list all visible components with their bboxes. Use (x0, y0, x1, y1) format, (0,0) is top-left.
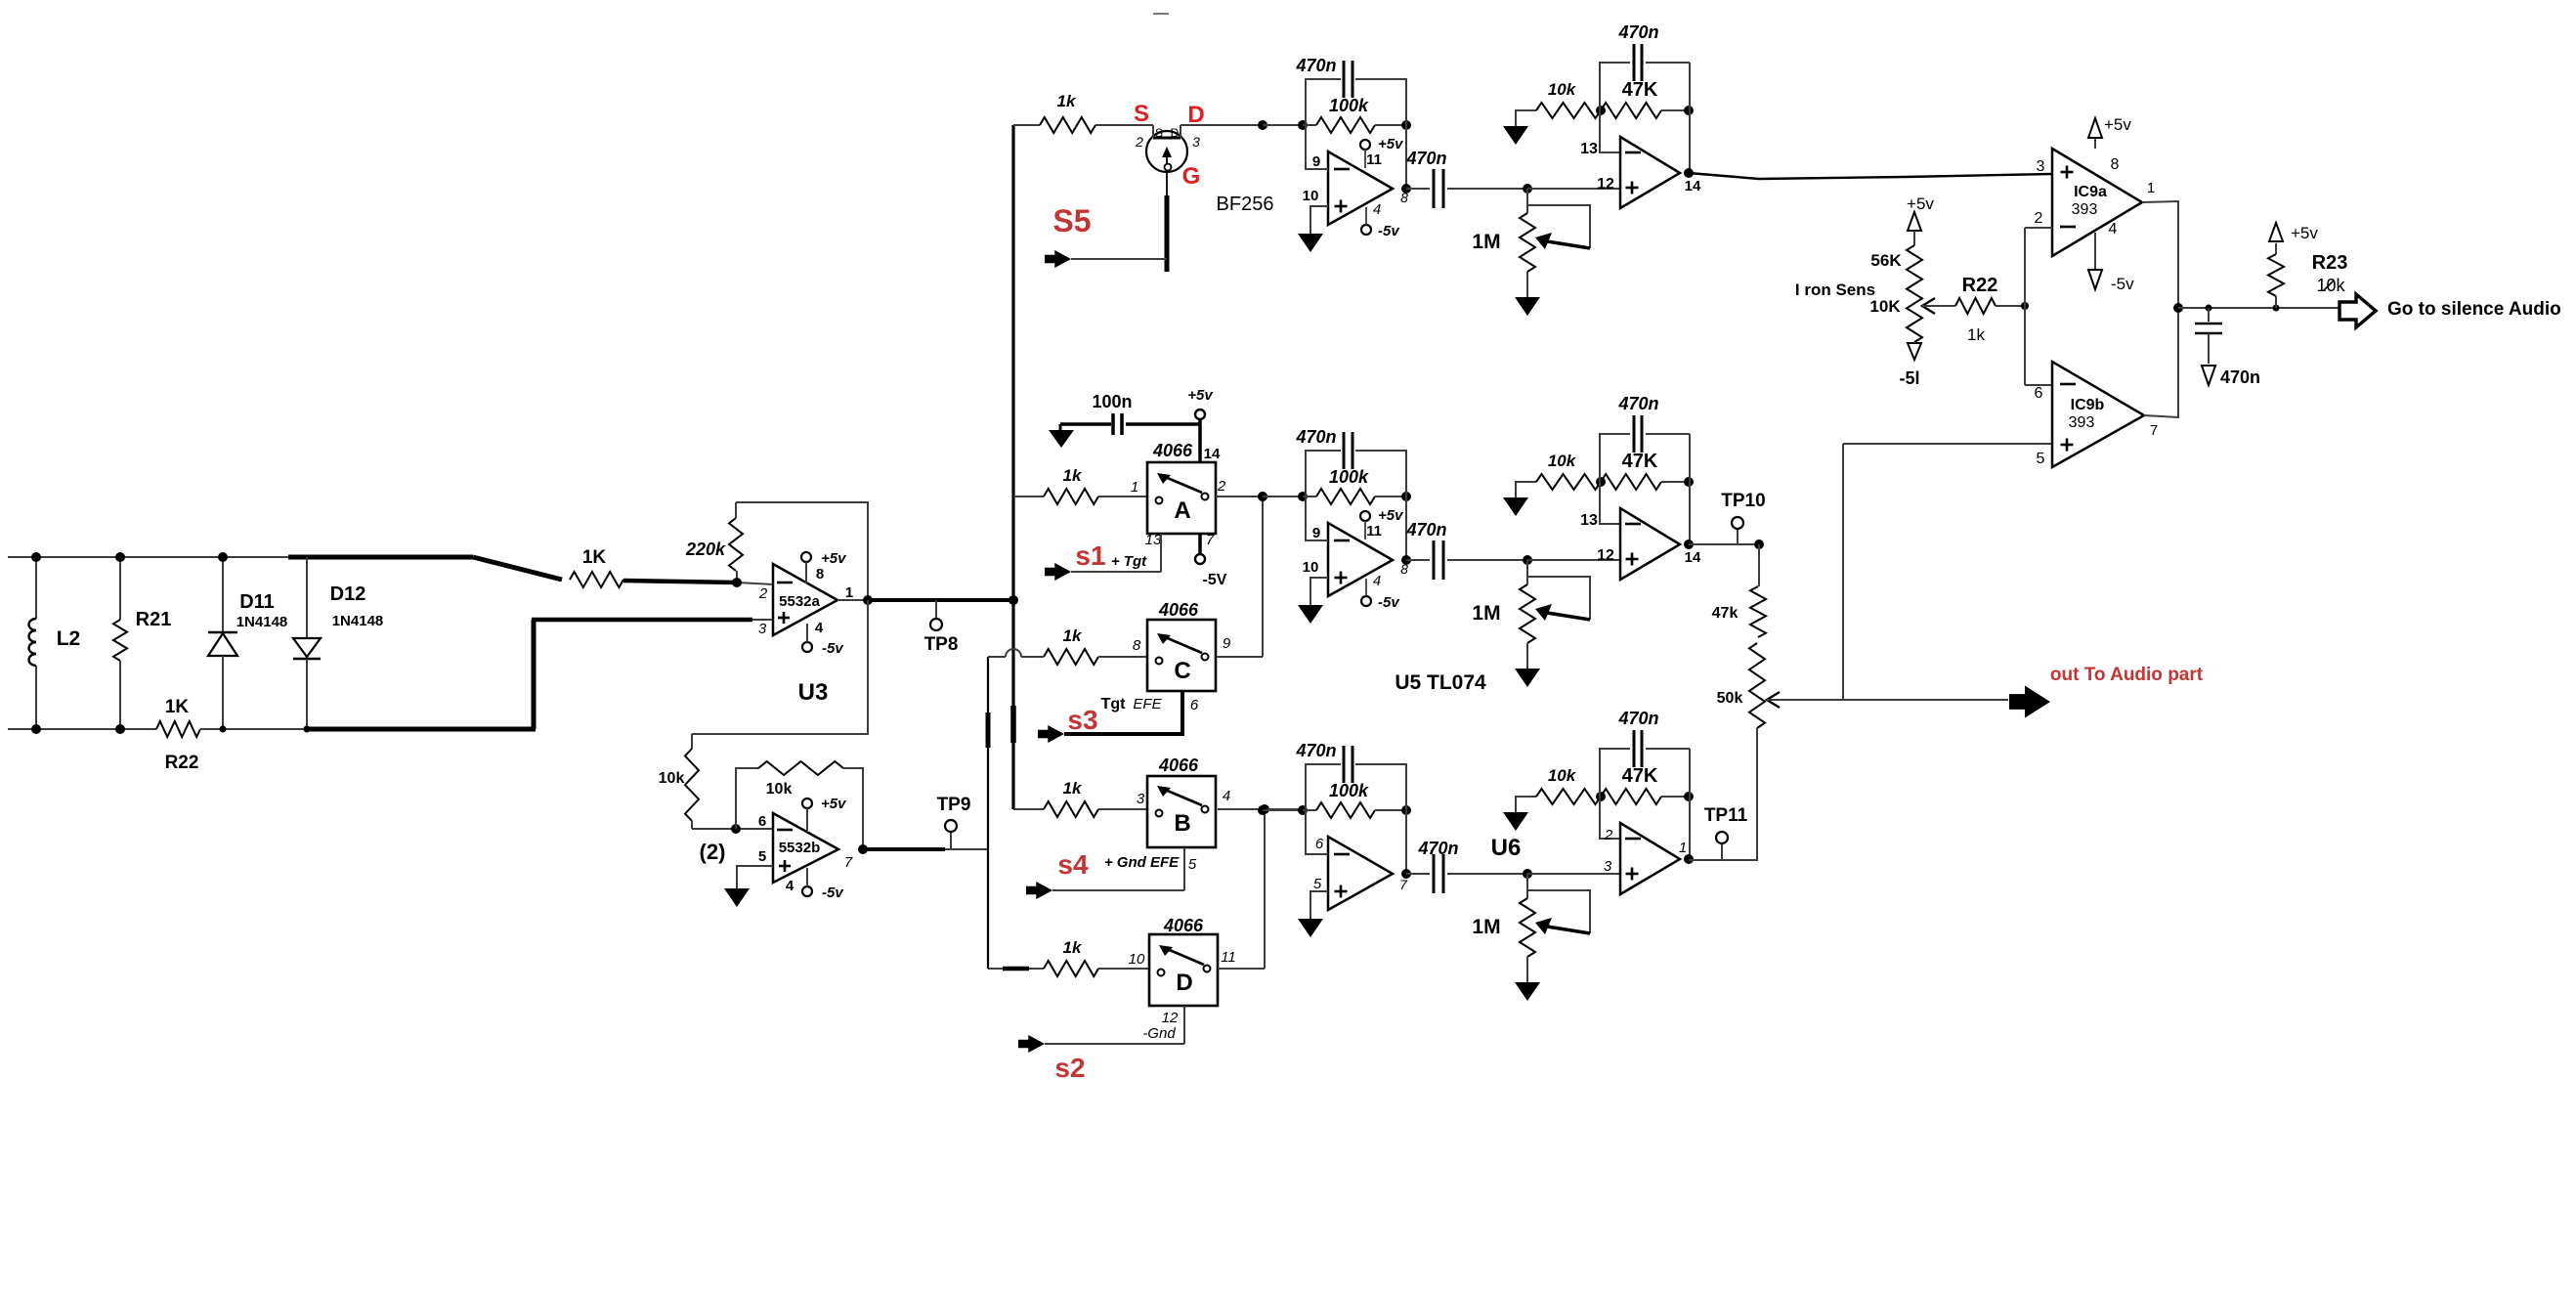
svg-text:-5v: -5v (822, 885, 844, 901)
svg-text:6: 6 (1315, 836, 1324, 852)
svg-text:393: 393 (2069, 414, 2095, 431)
svg-text:2: 2 (1135, 134, 1143, 150)
svg-text:+5v: +5v (1378, 136, 1404, 152)
svg-text:+ Tgt: + Tgt (1111, 553, 1147, 570)
svg-text:1: 1 (1679, 840, 1687, 856)
svg-text:D12: D12 (330, 583, 366, 605)
svg-text:2: 2 (2035, 210, 2043, 227)
svg-text:6: 6 (758, 813, 766, 830)
svg-text:1M: 1M (1472, 231, 1500, 253)
svg-text:4066: 4066 (1158, 600, 1199, 620)
svg-text:5532a: 5532a (779, 593, 820, 610)
svg-text:C: C (1174, 658, 1190, 684)
svg-text:TP8: TP8 (924, 634, 959, 655)
svg-text:470n: 470n (1295, 741, 1336, 760)
svg-text:47k: 47k (1712, 605, 1739, 622)
svg-text:S: S (1155, 126, 1163, 140)
svg-text:470n: 470n (2220, 367, 2260, 387)
svg-text:10: 10 (1303, 188, 1319, 204)
svg-text:1K: 1K (165, 697, 190, 717)
svg-text:8: 8 (2111, 156, 2120, 173)
svg-text:6: 6 (1190, 697, 1199, 713)
svg-text:4: 4 (815, 620, 824, 636)
svg-text:50k: 50k (1717, 690, 1743, 707)
svg-text:D: D (1187, 102, 1204, 128)
svg-text:4: 4 (1373, 573, 1381, 589)
svg-text:R22: R22 (1962, 275, 1998, 296)
svg-text:-5v: -5v (1378, 223, 1400, 239)
svg-text:4: 4 (786, 878, 794, 894)
svg-text:393: 393 (2072, 201, 2098, 218)
svg-text:1M: 1M (1472, 602, 1500, 625)
svg-text:10: 10 (1129, 951, 1145, 968)
svg-text:5: 5 (1188, 856, 1197, 873)
svg-text:3: 3 (758, 621, 767, 637)
svg-text:5: 5 (2037, 451, 2045, 467)
svg-text:-5V: -5V (1203, 572, 1227, 588)
svg-text:U5 TL074: U5 TL074 (1395, 671, 1486, 694)
svg-text:1k: 1k (1063, 779, 1083, 798)
svg-text:IC9a: IC9a (2074, 184, 2107, 200)
svg-text:10K: 10K (1869, 297, 1901, 316)
svg-text:1k: 1k (1967, 325, 1985, 344)
svg-text:4: 4 (1373, 201, 1381, 218)
svg-text:R22: R22 (165, 753, 199, 773)
svg-text:9: 9 (1312, 153, 1320, 170)
svg-text:EFE: EFE (1133, 696, 1162, 712)
svg-text:1K: 1K (582, 547, 607, 568)
svg-text:+5v: +5v (1187, 387, 1214, 404)
svg-text:-5v: -5v (822, 640, 844, 657)
svg-text:47K: 47K (1622, 79, 1658, 101)
svg-text:10k: 10k (1548, 80, 1577, 99)
svg-text:s3: s3 (1067, 705, 1097, 735)
svg-text:10: 10 (1303, 559, 1319, 576)
svg-text:11: 11 (1366, 151, 1382, 168)
svg-text:Go to silence Audio: Go to silence Audio (2387, 299, 2561, 320)
svg-text:6: 6 (2035, 385, 2043, 402)
svg-text:TP10: TP10 (1721, 491, 1765, 511)
svg-text:1N4148: 1N4148 (332, 613, 384, 629)
svg-text:1N4148: 1N4148 (236, 614, 288, 630)
svg-text:3: 3 (1192, 134, 1200, 150)
svg-text:10k: 10k (1548, 766, 1577, 785)
svg-text:1: 1 (1131, 479, 1138, 496)
svg-text:+ Gnd EFE: + Gnd EFE (1104, 854, 1180, 871)
svg-text:8: 8 (816, 566, 824, 583)
svg-text:s2: s2 (1054, 1053, 1085, 1083)
svg-text:D11: D11 (239, 591, 275, 613)
svg-text:470n: 470n (1405, 149, 1446, 168)
svg-text:9: 9 (1312, 525, 1320, 541)
svg-text:TP9: TP9 (937, 795, 971, 815)
svg-text:8: 8 (1400, 561, 1408, 577)
svg-text:D: D (1171, 126, 1180, 140)
svg-text:100k: 100k (1329, 96, 1369, 115)
svg-text:1M: 1M (1472, 916, 1500, 938)
svg-text:-Gnd: -Gnd (1142, 1025, 1176, 1042)
svg-text:1k: 1k (1063, 466, 1083, 485)
svg-text:+5v: +5v (2291, 224, 2318, 242)
svg-text:14: 14 (1685, 178, 1701, 194)
svg-text:8: 8 (1133, 637, 1141, 654)
svg-text:11: 11 (1221, 949, 1236, 966)
svg-text:L2: L2 (57, 627, 81, 650)
svg-text:+5v: +5v (1378, 507, 1404, 524)
svg-text:s1: s1 (1075, 540, 1105, 571)
svg-text:1: 1 (845, 584, 853, 601)
svg-text:+5v: +5v (821, 796, 847, 812)
svg-text:R23: R23 (2312, 252, 2348, 274)
svg-text:s4: s4 (1057, 849, 1089, 880)
svg-text:4066: 4066 (1152, 441, 1193, 460)
svg-text:13: 13 (1145, 532, 1162, 548)
svg-text:14: 14 (1204, 446, 1221, 462)
svg-text:-5v: -5v (1378, 594, 1400, 611)
svg-text:8: 8 (1400, 190, 1408, 205)
svg-text:220k: 220k (685, 540, 726, 559)
svg-text:out To Audio part: out To Audio part (2050, 665, 2204, 685)
svg-text:13: 13 (1580, 512, 1598, 529)
svg-text:+5v: +5v (821, 550, 847, 567)
svg-text:5: 5 (1313, 876, 1322, 892)
svg-text:5532b: 5532b (779, 840, 821, 856)
svg-text:2: 2 (1217, 478, 1226, 495)
svg-text:10k: 10k (766, 781, 793, 798)
svg-text:1: 1 (2147, 180, 2155, 196)
svg-text:5: 5 (758, 848, 766, 865)
svg-text:Tgt: Tgt (1101, 696, 1127, 712)
svg-text:BF256: BF256 (1217, 194, 1274, 215)
svg-text:7: 7 (1206, 532, 1215, 548)
svg-text:11: 11 (1366, 523, 1382, 540)
svg-text:12: 12 (1597, 176, 1614, 193)
svg-text:I ron Sens: I ron Sens (1795, 281, 1875, 299)
svg-text:+5v: +5v (1907, 194, 1934, 213)
svg-text:-5v: -5v (2111, 275, 2134, 293)
svg-text:470n: 470n (1617, 22, 1658, 42)
svg-text:TP11: TP11 (1704, 805, 1748, 826)
svg-text:10k: 10k (659, 770, 685, 787)
svg-text:2: 2 (1604, 827, 1613, 843)
svg-text:4066: 4066 (1158, 755, 1199, 775)
svg-text:7: 7 (844, 854, 853, 871)
svg-text:R21: R21 (136, 609, 172, 630)
svg-text:47K: 47K (1622, 765, 1658, 787)
svg-text:B: B (1174, 810, 1190, 837)
svg-text:12: 12 (1162, 1010, 1179, 1026)
svg-text:1k: 1k (1063, 626, 1083, 645)
svg-text:100k: 100k (1329, 467, 1369, 487)
svg-text:U6: U6 (1491, 835, 1522, 861)
svg-text:(2): (2) (700, 840, 726, 864)
svg-text:U3: U3 (798, 679, 829, 706)
svg-text:1k: 1k (1063, 938, 1083, 957)
svg-text:4: 4 (2109, 221, 2118, 237)
svg-text:3: 3 (1137, 791, 1145, 807)
svg-text:470n: 470n (1295, 56, 1336, 75)
svg-text:10k: 10k (2316, 276, 2345, 295)
svg-text:13: 13 (1580, 141, 1598, 157)
svg-text:470n: 470n (1617, 394, 1658, 413)
svg-text:470n: 470n (1617, 709, 1658, 728)
svg-text:3: 3 (2037, 158, 2045, 175)
svg-text:2: 2 (758, 585, 768, 602)
svg-text:14: 14 (1685, 549, 1701, 566)
svg-text:9: 9 (1223, 635, 1231, 652)
svg-text:3: 3 (1604, 858, 1612, 875)
svg-text:4066: 4066 (1163, 916, 1204, 935)
svg-text:10k: 10k (1548, 452, 1577, 470)
svg-text:G: G (1182, 163, 1201, 190)
svg-text:A: A (1174, 497, 1190, 524)
svg-text:470n: 470n (1405, 520, 1446, 540)
svg-text:7: 7 (1399, 877, 1408, 892)
svg-text:470n: 470n (1417, 839, 1458, 858)
svg-text:S: S (1134, 101, 1149, 127)
svg-text:1k: 1k (1057, 92, 1077, 110)
svg-text:IC9b: IC9b (2071, 397, 2105, 413)
svg-text:100n: 100n (1092, 392, 1132, 411)
svg-text:7: 7 (2150, 422, 2158, 439)
svg-text:S5: S5 (1052, 203, 1091, 238)
svg-text:56K: 56K (1870, 251, 1902, 270)
svg-text:47K: 47K (1622, 451, 1658, 472)
svg-text:100k: 100k (1329, 781, 1369, 800)
svg-text:470n: 470n (1295, 427, 1336, 447)
svg-text:+5v: +5v (2104, 115, 2131, 134)
svg-text:-5l: -5l (1899, 368, 1919, 388)
svg-text:12: 12 (1597, 547, 1614, 564)
svg-text:D: D (1176, 970, 1192, 996)
svg-text:4: 4 (1223, 788, 1230, 804)
